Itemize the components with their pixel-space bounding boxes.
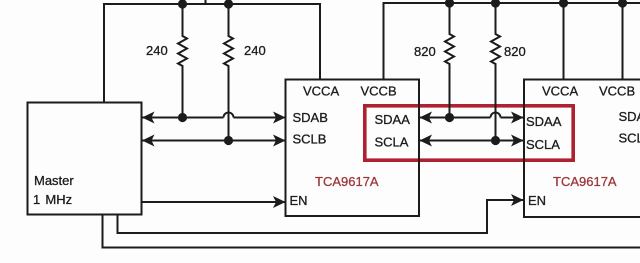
wire EN bus bbox=[118, 200, 524, 233]
wire SCLA bbox=[420, 140, 524, 142]
junction dot R1 top bbox=[178, 0, 187, 9]
svg-text:240: 240 bbox=[146, 43, 168, 58]
Master box bbox=[28, 103, 142, 215]
svg-text:EN: EN bbox=[528, 193, 546, 208]
wire VCC stub up bbox=[205, 0, 207, 4]
svg-text:SDAB: SDAB bbox=[293, 110, 328, 125]
svg-text:SCLA: SCLA bbox=[375, 135, 409, 150]
device U2 TCA9617A box bbox=[524, 80, 640, 218]
wire VCCA pin right device bbox=[563, 3, 565, 79]
svg-text:VCCA: VCCA bbox=[303, 84, 339, 99]
device U1 TCA9617A box bbox=[286, 80, 420, 217]
wire VCCB pin right device bbox=[622, 3, 624, 79]
arrowhead SCLB right bbox=[273, 135, 286, 147]
wire EN1 bbox=[142, 201, 286, 203]
wire SDAA bbox=[420, 113, 524, 118]
svg-text:VCCA: VCCA bbox=[542, 84, 578, 99]
svg-text:820: 820 bbox=[504, 44, 526, 59]
junction dot SDAA-R3 bbox=[445, 113, 454, 122]
svg-text:240: 240 bbox=[244, 43, 266, 58]
wire left VCC rail bbox=[104, 4, 320, 103]
svg-text:TCA9617A: TCA9617A bbox=[315, 174, 379, 189]
arrowhead EN2 bbox=[511, 194, 524, 206]
arrowhead SDAA left bbox=[420, 112, 433, 124]
wire right VCC rail bbox=[384, 3, 640, 79]
junction dot R3 top bbox=[445, 0, 454, 8]
wire SCLB bbox=[142, 140, 285, 142]
wire SDAB bbox=[142, 113, 285, 118]
resistor R2 240 bbox=[224, 4, 233, 141]
svg-text:SCLA: SCLA bbox=[526, 137, 560, 152]
arrowhead SCLA left bbox=[420, 135, 433, 147]
svg-text:SDA: SDA bbox=[619, 109, 640, 124]
svg-text:SCL: SCL bbox=[619, 131, 640, 146]
annotation red box bbox=[365, 106, 573, 160]
arrowhead SDAB left bbox=[142, 112, 155, 124]
junction dot SDAB-R1 bbox=[178, 113, 187, 122]
svg-text:1 MHz: 1 MHz bbox=[33, 192, 72, 207]
svg-text:SCLB: SCLB bbox=[293, 132, 327, 147]
svg-text:820: 820 bbox=[414, 44, 436, 59]
junction dot SCLB-R2 bbox=[224, 136, 233, 145]
arrowhead EN1 bbox=[273, 196, 286, 208]
arrowhead SDAA right bbox=[511, 112, 524, 124]
junction dot VCCA U2 bbox=[559, 0, 568, 8]
svg-text:Master: Master bbox=[34, 173, 74, 188]
junction dot R2 top bbox=[224, 0, 233, 9]
arrowhead SCLA right bbox=[511, 135, 524, 147]
arrowhead SDAB right bbox=[273, 112, 286, 124]
svg-text:TCA9617A: TCA9617A bbox=[553, 174, 617, 189]
svg-text:EN: EN bbox=[290, 193, 308, 208]
wire bottom bus bbox=[103, 215, 640, 248]
junction dot R4 top bbox=[491, 0, 500, 8]
resistor R1 240 bbox=[178, 4, 187, 118]
svg-text:VCCB: VCCB bbox=[361, 84, 397, 99]
svg-text:VCCB: VCCB bbox=[599, 84, 635, 99]
resistor R4 820 bbox=[491, 3, 500, 141]
svg-text:SDAA: SDAA bbox=[375, 112, 411, 127]
resistor R3 820 bbox=[445, 3, 454, 118]
arrowhead SCLB left bbox=[142, 135, 155, 147]
svg-text:SDAA: SDAA bbox=[526, 114, 562, 129]
junction dot VCCB U2 bbox=[618, 0, 627, 8]
junction dot SCLA-R4 bbox=[491, 136, 500, 145]
